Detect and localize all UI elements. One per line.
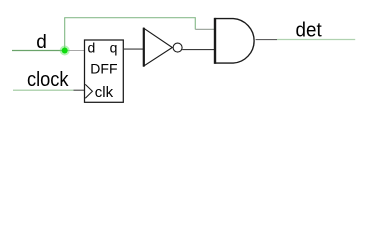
- wire net-d top horizontal (green): [64, 17, 195, 19]
- node junction on net d: [60, 46, 70, 56]
- wire clock input (green): [13, 89, 74, 91]
- inverter U2 left edge thick: [143, 28, 145, 67]
- wire AND output stub: [256, 39, 277, 41]
- AND gate U3 left edge thick: [214, 18, 216, 64]
- wire d input (green): [12, 50, 65, 52]
- AND gate U3 body: [215, 19, 254, 64]
- svg-text:clk: clk: [95, 84, 114, 101]
- pin clk edge-trigger wedge: [85, 84, 92, 98]
- wire clock pin stub: [74, 89, 85, 91]
- svg-text:q: q: [110, 40, 118, 56]
- wire q output to inverter: [123, 48, 144, 50]
- wire det output (green): [277, 39, 355, 41]
- svg-text:det: det: [296, 20, 323, 42]
- wire net-d drop to AND input (green): [194, 17, 196, 29]
- flip-flop U1 DFF body: [85, 40, 124, 102]
- wire net-d vertical riser (green): [64, 18, 66, 51]
- wire inverter output to AND bottom input: [182, 49, 214, 51]
- wire AND top input stub: [195, 28, 214, 30]
- inverter U2 output bubble: [173, 43, 182, 52]
- svg-text:DFF: DFF: [90, 61, 117, 77]
- svg-text:d: d: [88, 40, 96, 56]
- inverter U2 triangle: [144, 28, 173, 66]
- svg-text:clock: clock: [27, 69, 69, 91]
- wire d stub to DFF: [65, 50, 85, 52]
